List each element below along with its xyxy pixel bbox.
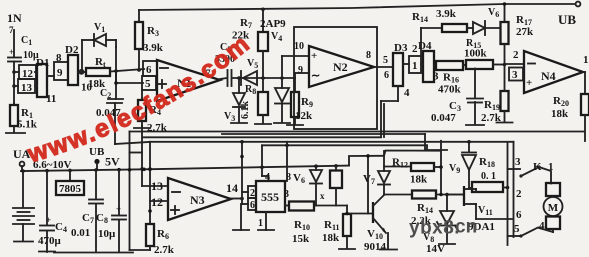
- wire bus B3: [115, 142, 514, 144]
- wire bus B2: [143, 136, 381, 138]
- resistor R8: [262, 78, 264, 92]
- svg-text:18k: 18k: [410, 174, 428, 186]
- wire: [539, 167, 551, 184]
- ground: [439, 243, 455, 245]
- resistor Rt: [86, 68, 110, 76]
- svg-text:D1: D1: [36, 57, 49, 69]
- svg-text:1: 1: [258, 218, 263, 229]
- svg-text:555: 555: [261, 190, 279, 204]
- wire: [78, 71, 86, 73]
- svg-text:4: 4: [404, 87, 410, 99]
- wire: [130, 249, 151, 251]
- wire: [261, 145, 263, 176]
- svg-text:18k: 18k: [551, 108, 569, 120]
- svg-text:8: 8: [56, 52, 62, 64]
- capacitor C5 3300: [220, 78, 227, 79]
- svg-text:13: 13: [151, 179, 163, 193]
- wire: [110, 69, 144, 72]
- op-amp N4: [524, 51, 583, 93]
- motor M: [546, 183, 560, 196]
- wire ground bus: [54, 252, 133, 254]
- resistor R7: [261, 8, 265, 12]
- svg-text:11: 11: [46, 93, 56, 105]
- node pin 1: [409, 56, 421, 73]
- svg-text:5: 5: [145, 78, 151, 90]
- ground: [274, 122, 290, 124]
- diode V7: [383, 151, 385, 171]
- diode gate D3: [393, 53, 403, 86]
- svg-text:D2: D2: [65, 44, 79, 56]
- wire: [285, 205, 289, 207]
- svg-text:2.7k: 2.7k: [154, 244, 175, 256]
- svg-text:5.1k: 5.1k: [17, 119, 38, 131]
- svg-text:D3: D3: [394, 42, 408, 54]
- svg-text:1: 1: [583, 54, 589, 66]
- ground: [231, 122, 247, 124]
- diode gate D2: [68, 55, 78, 85]
- wire: [141, 126, 143, 186]
- svg-text:10μ: 10μ: [98, 228, 116, 240]
- svg-text:cn: cn: [455, 217, 477, 238]
- svg-text:1: 1: [412, 60, 418, 72]
- resistor R14b: [384, 194, 412, 196]
- wire: [381, 100, 398, 102]
- wire: [420, 28, 422, 56]
- svg-text:2AP9: 2AP9: [260, 18, 286, 30]
- diode V2 zener: [281, 56, 283, 88]
- ground: [14, 241, 33, 243]
- svg-text:+: +: [311, 50, 317, 62]
- ground: [240, 204, 242, 230]
- svg-text:6: 6: [516, 209, 522, 221]
- svg-text:+: +: [46, 215, 51, 225]
- ground: [497, 122, 513, 124]
- svg-text:7805: 7805: [59, 183, 82, 195]
- resistor R17: [504, 4, 506, 22]
- svg-text:470k: 470k: [438, 84, 462, 96]
- svg-text:9: 9: [298, 65, 303, 76]
- node pin 6: [143, 61, 157, 76]
- resistor R12: [384, 166, 411, 168]
- transistor V10 9014: [367, 156, 369, 214]
- relay contact K1: [519, 174, 522, 177]
- svg-text:ybx8.: ybx8.: [409, 218, 460, 239]
- resistor R4: [141, 90, 143, 100]
- capacitor C4: [39, 251, 55, 253]
- svg-text:3: 3: [512, 69, 518, 81]
- svg-text:18k: 18k: [322, 232, 340, 244]
- svg-text:5V: 5V: [105, 155, 120, 169]
- diode gate D4: [423, 51, 434, 82]
- svg-text:15k: 15k: [292, 233, 310, 245]
- svg-text:3: 3: [433, 71, 439, 83]
- ground: [466, 124, 484, 126]
- node UB terminal: [576, 2, 581, 7]
- node UA terminal: [20, 162, 25, 167]
- svg-text:9: 9: [57, 67, 63, 79]
- op-amp N2: [309, 46, 374, 87]
- wire: [241, 142, 243, 204]
- transistor V11: [447, 194, 464, 196]
- svg-text:8: 8: [366, 50, 371, 61]
- wire: [231, 198, 242, 200]
- svg-text:5: 5: [514, 223, 520, 235]
- wire: [374, 66, 393, 68]
- relay contact lower: [508, 235, 521, 237]
- svg-text:N3: N3: [190, 193, 205, 207]
- svg-text:0. 1: 0. 1: [481, 171, 496, 182]
- wire: [115, 71, 117, 83]
- svg-text:12k: 12k: [295, 110, 313, 122]
- ground: [6, 132, 25, 134]
- svg-text:M: M: [548, 202, 559, 214]
- svg-text:4: 4: [265, 172, 270, 183]
- svg-text:∼: ∼: [311, 70, 320, 82]
- resistor R20: [581, 94, 589, 115]
- wire: [397, 86, 399, 101]
- svg-text:2: 2: [516, 188, 522, 200]
- diode gate D1: [37, 64, 47, 97]
- capacitor C2: [115, 47, 117, 99]
- resistor R1: [13, 103, 15, 105]
- wire: [286, 142, 288, 181]
- ground: [134, 127, 150, 129]
- svg-text:470μ: 470μ: [38, 235, 62, 247]
- capacitor C8: [118, 170, 120, 215]
- svg-text:5: 5: [383, 55, 388, 66]
- wire: [13, 62, 15, 104]
- capacitor C3: [474, 69, 476, 99]
- wire: [476, 218, 512, 220]
- wire: [314, 205, 347, 207]
- wire: [583, 71, 585, 73]
- op-amp N1: [157, 60, 220, 101]
- resistor R9: [294, 73, 296, 78]
- svg-text:100k: 100k: [464, 48, 488, 60]
- node pin 12: [19, 65, 36, 79]
- capacitor C1: [8, 57, 21, 59]
- regulator 7805: [69, 170, 71, 181]
- node pin 9: [54, 62, 68, 80]
- node pin 3: [509, 68, 523, 81]
- svg-text:9014: 9014: [364, 241, 387, 253]
- wire: [150, 200, 168, 202]
- svg-text:N2: N2: [333, 60, 348, 74]
- wire bus B5: [349, 151, 440, 166]
- ground: [380, 249, 397, 251]
- capacitor C7: [95, 170, 97, 199]
- watermark elecfans: [31, 42, 257, 163]
- diode V9: [468, 142, 470, 152]
- resistor R18: [469, 187, 472, 189]
- resistor R16: [436, 61, 463, 70]
- wire: [434, 166, 441, 168]
- wire: [265, 212, 267, 230]
- resistor R15: [463, 64, 466, 66]
- svg-text:3.9k: 3.9k: [436, 8, 457, 20]
- resistor R11: [346, 206, 348, 215]
- ic 555: [256, 181, 285, 212]
- ground: [255, 123, 271, 125]
- svg-text:N4: N4: [541, 69, 556, 83]
- svg-text:14: 14: [226, 181, 238, 195]
- svg-text:0.047: 0.047: [431, 112, 456, 124]
- svg-text:1N: 1N: [7, 11, 22, 25]
- node pin 2: [248, 186, 256, 198]
- diode V8 zener: [446, 195, 448, 212]
- svg-text:UB: UB: [558, 12, 576, 27]
- svg-text:6: 6: [146, 64, 152, 76]
- resistor R10: [289, 202, 314, 211]
- svg-text:+: +: [9, 47, 14, 57]
- wire 5V rail: [21, 166, 349, 171]
- svg-text:3: 3: [284, 189, 289, 200]
- svg-text:+: +: [116, 204, 121, 214]
- node pin 5: [142, 76, 156, 90]
- op-amp N2 box: [294, 27, 377, 129]
- wire: [142, 185, 168, 187]
- node pin 13: [18, 79, 35, 93]
- wire: [493, 64, 505, 66]
- svg-text:6.1k: 6.1k: [240, 101, 251, 120]
- node pin 6: [248, 198, 256, 210]
- resistor R6: [146, 224, 154, 246]
- wire: [434, 65, 436, 67]
- resistor R14: [442, 24, 467, 32]
- ground: [258, 229, 274, 231]
- relay K1 left rail: [507, 142, 509, 245]
- svg-text:13: 13: [21, 82, 33, 94]
- diode V6b: [315, 166, 317, 170]
- svg-text:2: 2: [513, 49, 519, 61]
- resistor R13: [335, 166, 337, 171]
- resistor R19: [501, 91, 509, 111]
- ground: [339, 248, 355, 250]
- wire top bus: [139, 4, 575, 10]
- svg-text:6: 6: [384, 70, 389, 81]
- resistor R3: [135, 22, 143, 49]
- wire: [138, 10, 140, 22]
- diode V1: [81, 40, 83, 72]
- svg-text:10: 10: [294, 41, 304, 52]
- svg-text:27k: 27k: [516, 26, 534, 38]
- svg-text:12: 12: [151, 195, 163, 209]
- svg-text:6: 6: [250, 200, 255, 211]
- diode V6: [467, 27, 473, 29]
- wire: [232, 77, 295, 79]
- svg-text:3: 3: [515, 156, 521, 168]
- node contact 3: [508, 168, 521, 170]
- svg-text:x: x: [320, 191, 325, 201]
- wire: [47, 75, 54, 77]
- node UB 5V terminal: [94, 159, 99, 164]
- wire bus B1: [130, 131, 585, 133]
- wire: [14, 71, 19, 73]
- diode V5: [243, 71, 257, 85]
- battery GB: [22, 171, 24, 207]
- op-amp N3: [168, 178, 231, 220]
- svg-text:0.01: 0.01: [71, 227, 90, 239]
- svg-text:3.9k: 3.9k: [143, 42, 164, 54]
- wire bus B1b: [222, 133, 425, 135]
- svg-text:+: +: [526, 77, 532, 89]
- diode V3: [238, 78, 240, 93]
- ground: [287, 124, 303, 126]
- wire bus B4: [262, 144, 427, 146]
